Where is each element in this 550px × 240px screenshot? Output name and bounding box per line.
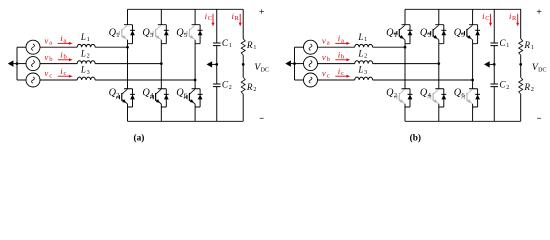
wire: leg 3 vertical segments (b)	[472, 9, 474, 121]
wire: leg 2 vertical segments (b)	[438, 9, 440, 121]
antiparallel diode of Q5	[198, 25, 203, 44]
node: capacitor midpoint	[215, 63, 218, 66]
current arrow ib (b)	[335, 58, 350, 61]
svg-text:C2: C2	[222, 80, 232, 91]
svg-text:R1: R1	[523, 40, 533, 51]
neutral point arrow (to midpoint)	[8, 60, 17, 66]
wire: phase a from source to inductor L1 (b)	[318, 46, 355, 48]
current arrow ic	[58, 75, 73, 78]
node: phase b / leg 2 junction	[160, 62, 163, 65]
wire: phase b from inductor to leg 2 (b)	[373, 63, 439, 65]
wire: phase a from inductor to leg 1	[95, 46, 127, 48]
antiparallel diode of Q6	[198, 89, 203, 107]
wire: collector/emitter node bars of Q1 (b)	[402, 25, 411, 44]
node: neutral junction on source bus	[16, 62, 19, 65]
svg-text:L3: L3	[357, 65, 367, 76]
transistor Q4 (IGBT)	[150, 89, 161, 103]
wire: phase a stub from bus to source va	[17, 46, 26, 48]
current arrow ic (b)	[335, 75, 350, 78]
svg-text:Q6: Q6	[454, 88, 466, 100]
svg-text:C1: C1	[222, 38, 232, 49]
svg-text:Q6: Q6	[176, 88, 188, 100]
current arrow ia (b)	[335, 42, 350, 45]
svg-text:iC: iC	[205, 11, 212, 22]
wire: phase a from source to inductor L1	[40, 46, 77, 48]
svg-text:ia: ia	[60, 33, 66, 44]
svg-text:Q2: Q2	[109, 88, 120, 100]
capacitor C2	[213, 84, 221, 87]
svg-text:iR: iR	[509, 11, 517, 22]
node: capacitor midpoint (b)	[493, 63, 496, 66]
resistor R2 (b)	[519, 77, 523, 94]
inductor L1 (b)	[355, 44, 373, 47]
wire: phase b stub from bus to source vb	[17, 63, 26, 65]
svg-text:C2: C2	[499, 80, 509, 91]
wire: collector/emitter node bars of Q1	[124, 25, 133, 44]
wire: phase a stub from bus to source va (b)	[295, 46, 304, 48]
svg-text:L2: L2	[357, 48, 367, 59]
svg-text:L3: L3	[80, 65, 90, 76]
wire: capacitor branch vertical (b)	[493, 9, 495, 121]
current arrow iR	[239, 14, 242, 26]
wire: collector/emitter node bars of Q4	[158, 89, 167, 107]
AC voltage source vc (b)	[304, 73, 318, 87]
wire: phase c stub from bus to source vc	[17, 79, 26, 81]
wire: leg 3 vertical segments	[194, 9, 196, 121]
antiparallel diode of Q2 (b)	[408, 89, 413, 107]
capacitor C1	[213, 43, 221, 46]
node: phase a / leg 1 junction	[126, 46, 129, 49]
wire: phase b from inductor to leg 2	[95, 63, 161, 65]
svg-text:(b): (b)	[410, 132, 421, 143]
wire: phase c from source to inductor L3 (b)	[318, 79, 355, 81]
capacitor C2 (b)	[490, 84, 498, 87]
node: phase b / leg 2 junction (b)	[437, 62, 440, 65]
midpoint arrow (to neutral)	[207, 61, 217, 67]
wire: leg 1 vertical segments	[127, 9, 129, 121]
svg-text:C1: C1	[499, 38, 509, 49]
midpoint arrow (to neutral) (b)	[484, 61, 494, 67]
wire: collector/emitter node bars of Q3 (b)	[435, 25, 444, 44]
wire: leg 1 vertical segments (b)	[404, 9, 406, 121]
svg-text:VDC: VDC	[254, 62, 269, 73]
antiparallel diode of Q3 (b)	[441, 25, 446, 44]
svg-text:iC: iC	[482, 11, 489, 22]
plus polarity mark (b)	[537, 9, 541, 13]
svg-text:Q1: Q1	[109, 28, 120, 40]
svg-text:L1: L1	[357, 32, 367, 43]
svg-text:Q3: Q3	[142, 28, 154, 40]
wire: DC+ top bus	[128, 8, 244, 10]
wire: source neutral bus (b)	[294, 47, 296, 80]
inductor L2	[77, 61, 95, 64]
node: neutral junction on source bus (b)	[293, 62, 296, 65]
resistor R2	[241, 77, 245, 94]
inductor L2 (b)	[355, 61, 373, 64]
wire: phase a from inductor to leg 1 (b)	[373, 46, 405, 48]
AC voltage source va	[26, 40, 40, 54]
transistor Q6 (b) (IGBT, shown gray)	[462, 89, 473, 103]
svg-text:Q4: Q4	[420, 88, 432, 100]
antiparallel diode of Q1	[130, 25, 135, 44]
svg-text:(a): (a)	[134, 132, 145, 143]
svg-text:iR: iR	[232, 11, 240, 22]
node: phase c / leg 3 junction	[194, 79, 197, 82]
transistor Q3 (IGBT, shown gray)	[150, 25, 161, 39]
svg-text:vc: vc	[322, 68, 330, 79]
svg-text:ib: ib	[338, 49, 345, 60]
wire: collector/emitter node bars of Q6 (b)	[469, 89, 478, 107]
svg-text:ic: ic	[60, 66, 66, 77]
svg-text:va: va	[322, 35, 330, 46]
wire: phase c from inductor to leg 3	[95, 79, 195, 81]
svg-text:L2: L2	[80, 48, 90, 59]
AC voltage source va (b)	[304, 40, 318, 54]
antiparallel diode of Q6 (b)	[475, 89, 480, 107]
wire: DC+ top bus (b)	[405, 8, 521, 10]
antiparallel diode of Q5 (b)	[475, 25, 480, 44]
antiparallel diode of Q4 (b)	[441, 89, 446, 107]
wire: DC- bottom bus	[128, 120, 244, 122]
antiparallel diode of Q1 (b)	[408, 25, 413, 44]
inductor L3 (b)	[355, 77, 373, 80]
transistor Q3 (b) (IGBT)	[428, 25, 439, 39]
svg-text:vb: vb	[322, 52, 331, 63]
svg-text:vb: vb	[44, 52, 53, 63]
transistor Q2 (b) (IGBT, shown gray)	[394, 89, 405, 103]
wire: collector/emitter node bars of Q5	[192, 25, 201, 44]
svg-text:Q5: Q5	[454, 28, 466, 40]
svg-text:L1: L1	[80, 32, 90, 43]
capacitor C1 (b)	[490, 43, 498, 46]
wire: phase c stub from bus to source vc (b)	[295, 79, 304, 81]
minus polarity mark (b)	[537, 117, 541, 119]
svg-text:vc: vc	[44, 68, 52, 79]
current arrow ia	[58, 42, 73, 45]
svg-text:Q1: Q1	[386, 28, 397, 40]
transistor Q1 (IGBT, shown gray)	[117, 25, 128, 39]
neutral point arrow (to midpoint) (b)	[285, 60, 294, 66]
wire: phase c from inductor to leg 3 (b)	[373, 79, 473, 81]
antiparallel diode of Q3	[164, 25, 169, 44]
current arrow iC	[212, 14, 215, 26]
wire: collector/emitter node bars of Q2	[124, 89, 133, 107]
current arrow iR (b)	[516, 14, 519, 26]
minus polarity mark	[260, 117, 264, 119]
wire: collector/emitter node bars of Q3	[158, 25, 167, 44]
wire: collector/emitter node bars of Q6	[192, 89, 201, 107]
svg-text:ia: ia	[338, 33, 344, 44]
svg-text:Q5: Q5	[176, 28, 188, 40]
transistor Q5 (IGBT, shown gray)	[184, 25, 195, 39]
transistor Q5 (b) (IGBT)	[462, 25, 473, 39]
AC voltage source vb	[26, 57, 40, 71]
wire: capacitor branch vertical	[216, 9, 218, 121]
inductor L1	[77, 44, 95, 47]
wire: load branch vertical	[242, 9, 244, 121]
node: phase c / leg 3 junction (b)	[471, 79, 474, 82]
svg-text:ic: ic	[338, 66, 344, 77]
wire: phase b from source to inductor L2 (b)	[318, 63, 355, 65]
wire: phase b from source to inductor L2	[40, 63, 77, 65]
svg-text:va: va	[44, 35, 52, 46]
wire: phase c from source to inductor L3	[40, 79, 77, 81]
svg-text:Q2: Q2	[386, 88, 397, 100]
current arrow ib	[58, 58, 73, 61]
node: load midpoint (VDC tap)	[242, 63, 245, 66]
wire: DC- bottom bus (b)	[405, 120, 521, 122]
transistor Q2 (IGBT)	[117, 89, 128, 103]
transistor Q1 (b) (IGBT)	[394, 25, 405, 39]
wire: leg 2 vertical segments	[160, 9, 162, 121]
resistor R1	[241, 39, 245, 55]
wire: collector/emitter node bars of Q5 (b)	[469, 25, 478, 44]
inductor L3	[77, 77, 95, 80]
AC voltage source vb (b)	[304, 57, 318, 71]
svg-text:Q4: Q4	[142, 88, 154, 100]
svg-text:ib: ib	[60, 49, 67, 60]
node: load midpoint (VDC tap) (b)	[519, 63, 522, 66]
svg-text:VDC: VDC	[532, 62, 547, 73]
svg-text:R2: R2	[246, 82, 256, 93]
wire: source neutral bus	[16, 47, 18, 80]
node: phase a / leg 1 junction (b)	[404, 46, 407, 49]
svg-text:Q3: Q3	[420, 28, 432, 40]
antiparallel diode of Q2	[130, 89, 135, 107]
transistor Q4 (b) (IGBT, shown gray)	[428, 89, 439, 103]
antiparallel diode of Q4	[164, 89, 169, 107]
AC voltage source vc	[26, 73, 40, 87]
transistor Q6 (IGBT)	[184, 89, 195, 103]
wire: collector/emitter node bars of Q2 (b)	[402, 89, 411, 107]
wire: phase b stub from bus to source vb (b)	[295, 63, 304, 65]
wire: collector/emitter node bars of Q4 (b)	[435, 89, 444, 107]
svg-text:R2: R2	[523, 82, 533, 93]
plus polarity mark	[259, 9, 263, 13]
wire: load branch vertical (b)	[520, 9, 522, 121]
current arrow iC (b)	[489, 14, 492, 26]
svg-text:R1: R1	[246, 40, 256, 51]
resistor R1 (b)	[519, 39, 523, 55]
